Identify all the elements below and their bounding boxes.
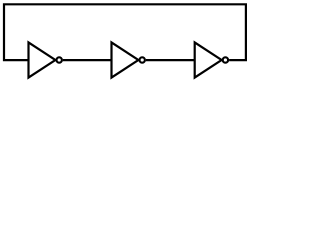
U3 output bubble [223, 57, 228, 62]
inverter U2 [112, 42, 139, 77]
U2 output bubble [140, 57, 145, 62]
wire: feedback loop from U3 output, up the right side, across the top, down the left side to U1 input [4, 4, 246, 60]
U1 output bubble [57, 57, 62, 62]
inverter U1 [29, 42, 56, 77]
wire: U1 output to U2 input [63, 59, 112, 61]
wire: U2 output to U3 input [146, 59, 195, 61]
wire: U3 output to feedback corner [229, 59, 247, 61]
inverter U3 [195, 42, 222, 77]
